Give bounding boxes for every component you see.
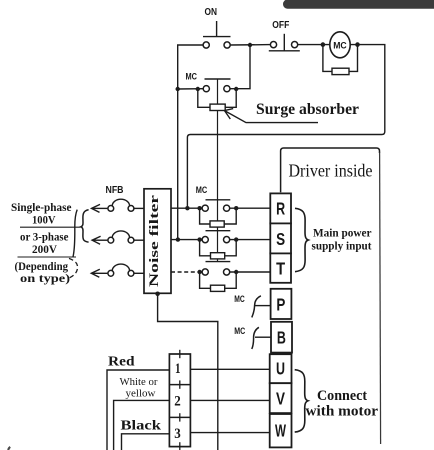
junction: ON row riser xyxy=(248,43,252,47)
wire: NFB3 to filter xyxy=(134,272,144,274)
motor connector strip xyxy=(169,354,190,447)
svg-text:ON: ON xyxy=(205,7,218,18)
svg-text:Noise filter: Noise filter xyxy=(147,194,161,287)
brace motor group xyxy=(295,370,308,432)
supply arrow pole 3 xyxy=(91,269,107,277)
contact MC at P xyxy=(252,296,271,318)
svg-text:100V: 100V xyxy=(32,215,56,227)
wire: R row filter to contact xyxy=(171,207,202,209)
junction: S row surge left xyxy=(197,237,201,241)
svg-text:MC: MC xyxy=(186,72,198,83)
junction: R row surge left xyxy=(197,206,201,210)
svg-text:B: B xyxy=(277,327,286,347)
contactor contact MC (control circuit) xyxy=(203,79,230,92)
svg-text:3: 3 xyxy=(174,426,181,442)
svg-text:P: P xyxy=(276,294,285,314)
junction: T row surge left xyxy=(197,270,201,274)
supply arrow pole 1 xyxy=(92,204,108,212)
surge absorber resistor pole R xyxy=(200,208,237,227)
wire: NFB1 to filter xyxy=(134,207,144,209)
rule under 200V xyxy=(18,256,77,258)
surge absorber resistor pole S xyxy=(200,240,237,259)
junction: T row surge right xyxy=(234,270,238,274)
svg-text:2: 2 xyxy=(174,393,181,409)
noise filter ground wire xyxy=(158,293,218,450)
junction: S row left vertical xyxy=(176,237,180,241)
brace main power group xyxy=(295,208,308,271)
svg-text:Red: Red xyxy=(108,354,135,369)
svg-text:1: 1 xyxy=(175,361,181,377)
contactor main contact MC pole T xyxy=(202,262,230,276)
wire: T row contact to terminal xyxy=(230,271,271,273)
svg-text:MC: MC xyxy=(234,326,245,337)
svg-text:Main power: Main power xyxy=(313,225,372,239)
svg-text:200V: 200V xyxy=(32,244,58,256)
wire: ON to OFF xyxy=(230,44,270,46)
connector strip ticks xyxy=(179,350,181,450)
wire: black lead xyxy=(122,434,170,450)
driver enclosure box xyxy=(281,148,381,444)
wire: T row filter to contact (dashed) xyxy=(171,271,202,273)
wire: white/yellow lead xyxy=(114,400,170,450)
terminal T xyxy=(270,253,291,282)
grouping line for options xyxy=(73,210,77,258)
wire: control return to R phase xyxy=(187,132,384,209)
svg-text:MC: MC xyxy=(333,40,347,51)
terminal R xyxy=(270,193,291,223)
svg-text:MC: MC xyxy=(234,294,245,305)
wire: R row contact to terminal xyxy=(230,207,271,209)
wire: ON row left xyxy=(178,45,203,89)
brace for supply options xyxy=(81,210,89,243)
terminal S xyxy=(270,223,291,253)
svg-text:on type): on type) xyxy=(20,271,70,285)
wire: terminal 3 to W xyxy=(190,432,269,434)
svg-text:Driver inside: Driver inside xyxy=(289,161,373,181)
leader arrow for Surge absorber label xyxy=(225,109,319,123)
wire: terminal 1 to U xyxy=(190,368,269,370)
wire: S row filter to contact xyxy=(171,239,202,241)
svg-text:Black: Black xyxy=(121,419,162,434)
svg-text:NFB: NFB xyxy=(106,185,124,196)
junction: coil left xyxy=(321,42,326,47)
terminal V xyxy=(270,383,292,413)
surge absorber resistor pole T xyxy=(200,272,237,291)
junction: S row surge right xyxy=(234,237,238,241)
wire: Red lead xyxy=(107,370,169,450)
corner scan mark xyxy=(8,447,10,450)
pushbutton OFF (NC) xyxy=(269,34,300,51)
surge absorber across coil xyxy=(323,45,358,75)
rule under 100V xyxy=(20,226,81,228)
wire: S row contact to terminal xyxy=(230,239,271,241)
svg-text:supply input: supply input xyxy=(312,239,372,253)
contactor main contact MC pole R xyxy=(202,200,230,211)
terminal B xyxy=(271,322,292,353)
wire: MC contact to riser xyxy=(230,45,250,89)
svg-text:U: U xyxy=(276,359,285,379)
svg-text:yellow: yellow xyxy=(126,389,156,400)
contact MC at B xyxy=(252,327,271,349)
svg-text:OFF: OFF xyxy=(272,19,289,31)
svg-text:R: R xyxy=(276,199,285,219)
wire: NFB2 to filter xyxy=(134,239,144,241)
surge absorber resistor across control MC contact xyxy=(198,89,236,111)
wire: OFF to coil xyxy=(298,44,330,46)
svg-text:W: W xyxy=(275,421,286,441)
junction: coil right xyxy=(355,42,360,47)
junction: R row surge right xyxy=(234,206,238,210)
svg-text:Surge absorber: Surge absorber xyxy=(256,101,359,118)
breaker NFB pole 1 xyxy=(108,199,134,211)
svg-text:S: S xyxy=(276,229,285,249)
MC mechanical linkage line xyxy=(217,79,219,262)
junction: MC row surge left xyxy=(196,87,200,91)
wire: MC contact row xyxy=(178,88,203,90)
breaker NFB pole 3 xyxy=(108,264,134,276)
scan artifact bar xyxy=(283,0,434,9)
pushbutton ON (NO) xyxy=(203,21,231,48)
svg-text:T: T xyxy=(276,258,285,278)
svg-text:or 3-phase: or 3-phase xyxy=(20,231,69,243)
junction: R row return xyxy=(185,206,189,210)
contactor main contact MC pole S xyxy=(202,231,230,243)
contactor coil MC xyxy=(330,32,350,58)
wire: left vertical feed to S row xyxy=(177,89,179,240)
svg-text:White or: White or xyxy=(120,377,159,388)
supply arrow pole 2 xyxy=(92,236,107,244)
junction: left vertical x MC row xyxy=(176,87,180,91)
wire: terminal 2 to V xyxy=(190,399,269,401)
svg-text:with motor: with motor xyxy=(306,404,379,420)
breaker NFB pole 2 xyxy=(108,231,134,243)
terminal U xyxy=(270,354,292,383)
junction: filter bottom xyxy=(155,292,160,297)
junction: MC row surge right xyxy=(234,87,238,91)
svg-text:MC: MC xyxy=(196,185,208,196)
dashed brace for pole 3 xyxy=(69,258,78,278)
wire: coil to right corner xyxy=(350,45,385,132)
svg-text:V: V xyxy=(276,389,285,409)
svg-text:Connect: Connect xyxy=(317,388,367,404)
noise filter box xyxy=(144,189,171,293)
terminal W xyxy=(270,414,292,447)
terminal P xyxy=(271,289,292,319)
svg-text:Single-phase: Single-phase xyxy=(11,202,72,214)
